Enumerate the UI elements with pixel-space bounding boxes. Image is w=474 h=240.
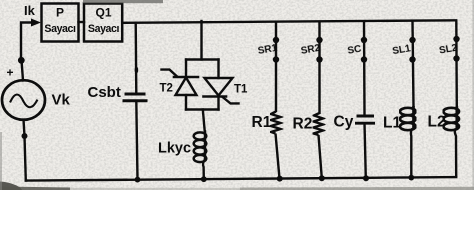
svg-text:Csbt: Csbt xyxy=(88,84,121,101)
wire: left branch upper xyxy=(185,60,187,78)
switch SR2 xyxy=(316,37,322,43)
wire: top feed to thyristor block xyxy=(200,21,202,60)
switch SR1 xyxy=(273,37,279,43)
svg-text:Ik: Ik xyxy=(24,3,36,18)
wire: bottom rail xyxy=(26,177,456,181)
inductor L2 xyxy=(443,106,459,130)
scan artifact: top edge gray band xyxy=(83,0,163,3)
scan artifact: bottom edge band right xyxy=(240,187,474,190)
capacitor Csbt xyxy=(123,22,148,183)
thyristor pair block xyxy=(162,21,239,182)
branch SL2/L2 xyxy=(443,20,459,177)
scan artifact: bottom-left corner blob xyxy=(0,182,22,191)
thyristor T2 xyxy=(162,70,199,95)
voltage source Vk xyxy=(2,80,45,120)
wire: right branch upper xyxy=(217,60,219,79)
branch SR2/R2 xyxy=(314,21,325,181)
svg-text:T1: T1 xyxy=(234,84,248,96)
meter box Q1 xyxy=(84,4,122,42)
svg-text:Q1: Q1 xyxy=(95,6,111,20)
inductor L1 xyxy=(400,106,416,130)
wire: source bottom terminal xyxy=(24,120,25,137)
svg-text:Sayacı: Sayacı xyxy=(44,23,76,35)
scan artifact: bottom edge band middle xyxy=(70,188,240,190)
svg-text:Lkyc: Lkyc xyxy=(158,141,191,157)
node: R2 bottom junction xyxy=(319,175,325,181)
node: Lkyc bottom junction xyxy=(201,176,207,182)
switch SL2 xyxy=(453,36,459,42)
branch SR1/R1 xyxy=(271,22,283,182)
switch SL1 xyxy=(409,37,415,43)
wire: top-left from source corner to P box with arrow xyxy=(21,19,41,61)
node: L1 bottom junction xyxy=(408,175,414,181)
wire: left vertical down to bottom rail xyxy=(25,136,27,181)
scan artifact: left edge lower smudge xyxy=(0,132,2,190)
wire: block top bar xyxy=(186,58,219,60)
wire: block bottom bar xyxy=(186,108,219,110)
wire: Lkyc to bottom rail xyxy=(203,160,205,179)
scan artifact: right edge line xyxy=(472,0,474,190)
paper background xyxy=(0,0,474,190)
scan artifact: bottom edge band left xyxy=(0,187,70,191)
node: Csbt bottom junction xyxy=(135,177,141,183)
svg-text:Vk: Vk xyxy=(52,92,71,109)
thyristor T1 xyxy=(204,78,239,103)
branch SC/Cy xyxy=(355,21,375,181)
wire: right branch lower xyxy=(217,97,219,110)
wire: center down to Lkyc xyxy=(203,110,205,133)
svg-text:R2: R2 xyxy=(293,116,313,133)
svg-text:P: P xyxy=(56,6,64,20)
svg-text:+: + xyxy=(7,66,14,80)
svg-text:Sayacı: Sayacı xyxy=(88,23,120,35)
inductor Lkyc xyxy=(194,132,207,163)
resistor R1 xyxy=(271,112,281,134)
meter box P xyxy=(42,4,123,42)
svg-text:L2: L2 xyxy=(428,114,446,131)
svg-text:L1: L1 xyxy=(383,115,401,132)
svg-text:Cy: Cy xyxy=(334,114,354,131)
node: source + terminal dot xyxy=(18,57,25,64)
svg-text:T2: T2 xyxy=(160,83,173,95)
node: source - terminal dot xyxy=(22,133,28,139)
switch SC xyxy=(361,37,367,43)
svg-text:R1: R1 xyxy=(252,114,272,131)
node: R1 bottom junction xyxy=(277,176,283,182)
branch SL1/L1 xyxy=(400,21,416,181)
wire: top rail from Q1 box to right end xyxy=(122,20,456,23)
wire: left branch lower xyxy=(185,95,187,110)
wire: between P and Q1 boxes xyxy=(79,21,85,23)
capacitor Cy xyxy=(357,115,375,118)
wire: source top terminal xyxy=(22,60,24,81)
resistor R2 xyxy=(314,113,324,135)
node: Cy bottom junction xyxy=(363,175,369,181)
